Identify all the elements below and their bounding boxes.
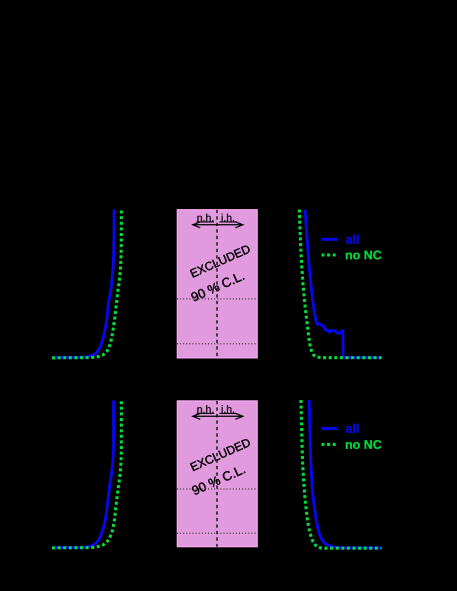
legend text all (top) <box>346 235 359 244</box>
legend text no NC (top) <box>346 251 382 260</box>
label n.h. (top box) <box>197 214 213 222</box>
text EXCLUDED (top box) <box>190 244 251 277</box>
vertical dashed center line (bottom box) <box>216 401 218 547</box>
excluded band box (bottom) <box>177 401 257 547</box>
underline i.h. (top box) <box>220 221 237 223</box>
legend dashed line no NC (top) <box>322 254 338 257</box>
double arrow (top box) <box>193 222 243 228</box>
text 90 % C.L. (bottom box) <box>191 464 245 495</box>
legend dashed line no NC (bottom) <box>322 443 338 446</box>
horizontal dotted line (bottom box, lower) <box>177 532 258 534</box>
label i.h. (bottom box) <box>222 405 234 413</box>
bottom-left green dashed curve (no NC) <box>52 401 121 548</box>
text EXCLUDED (bottom box) <box>190 438 251 471</box>
horizontal dotted line (top box, upper) <box>177 298 258 300</box>
top-right green dashed curve (no NC) <box>299 210 381 358</box>
vertical dashed center line (top box) <box>216 210 218 358</box>
underline i.h. (bottom box) <box>220 412 237 414</box>
bottom-right green dashed curve (no NC) <box>301 400 382 548</box>
label i.h. (top box) <box>222 214 234 222</box>
bottom-right blue curve (all) <box>309 400 381 548</box>
text 90 % C.L. (top box) <box>190 271 244 302</box>
horizontal dotted line (bottom box, upper) <box>177 488 258 490</box>
legend line all (bottom) <box>322 427 338 430</box>
legend text all (bottom) <box>346 424 359 433</box>
excluded band box (top) <box>177 210 257 358</box>
double arrow (bottom box) <box>193 413 243 419</box>
legend text no NC (bottom) <box>346 440 382 449</box>
legend line all (top) <box>322 238 338 241</box>
underline n.h. (top box) <box>197 221 215 223</box>
label n.h. (bottom box) <box>197 405 213 413</box>
top-right blue curve (all) <box>305 210 382 358</box>
underline n.h. (bottom box) <box>197 412 215 414</box>
horizontal dotted line (top box, lower) <box>177 343 258 345</box>
bottom-left blue curve (all) <box>52 401 114 548</box>
top-left blue curve (all) <box>52 210 114 358</box>
top-left green dashed curve (no NC) <box>52 210 121 358</box>
